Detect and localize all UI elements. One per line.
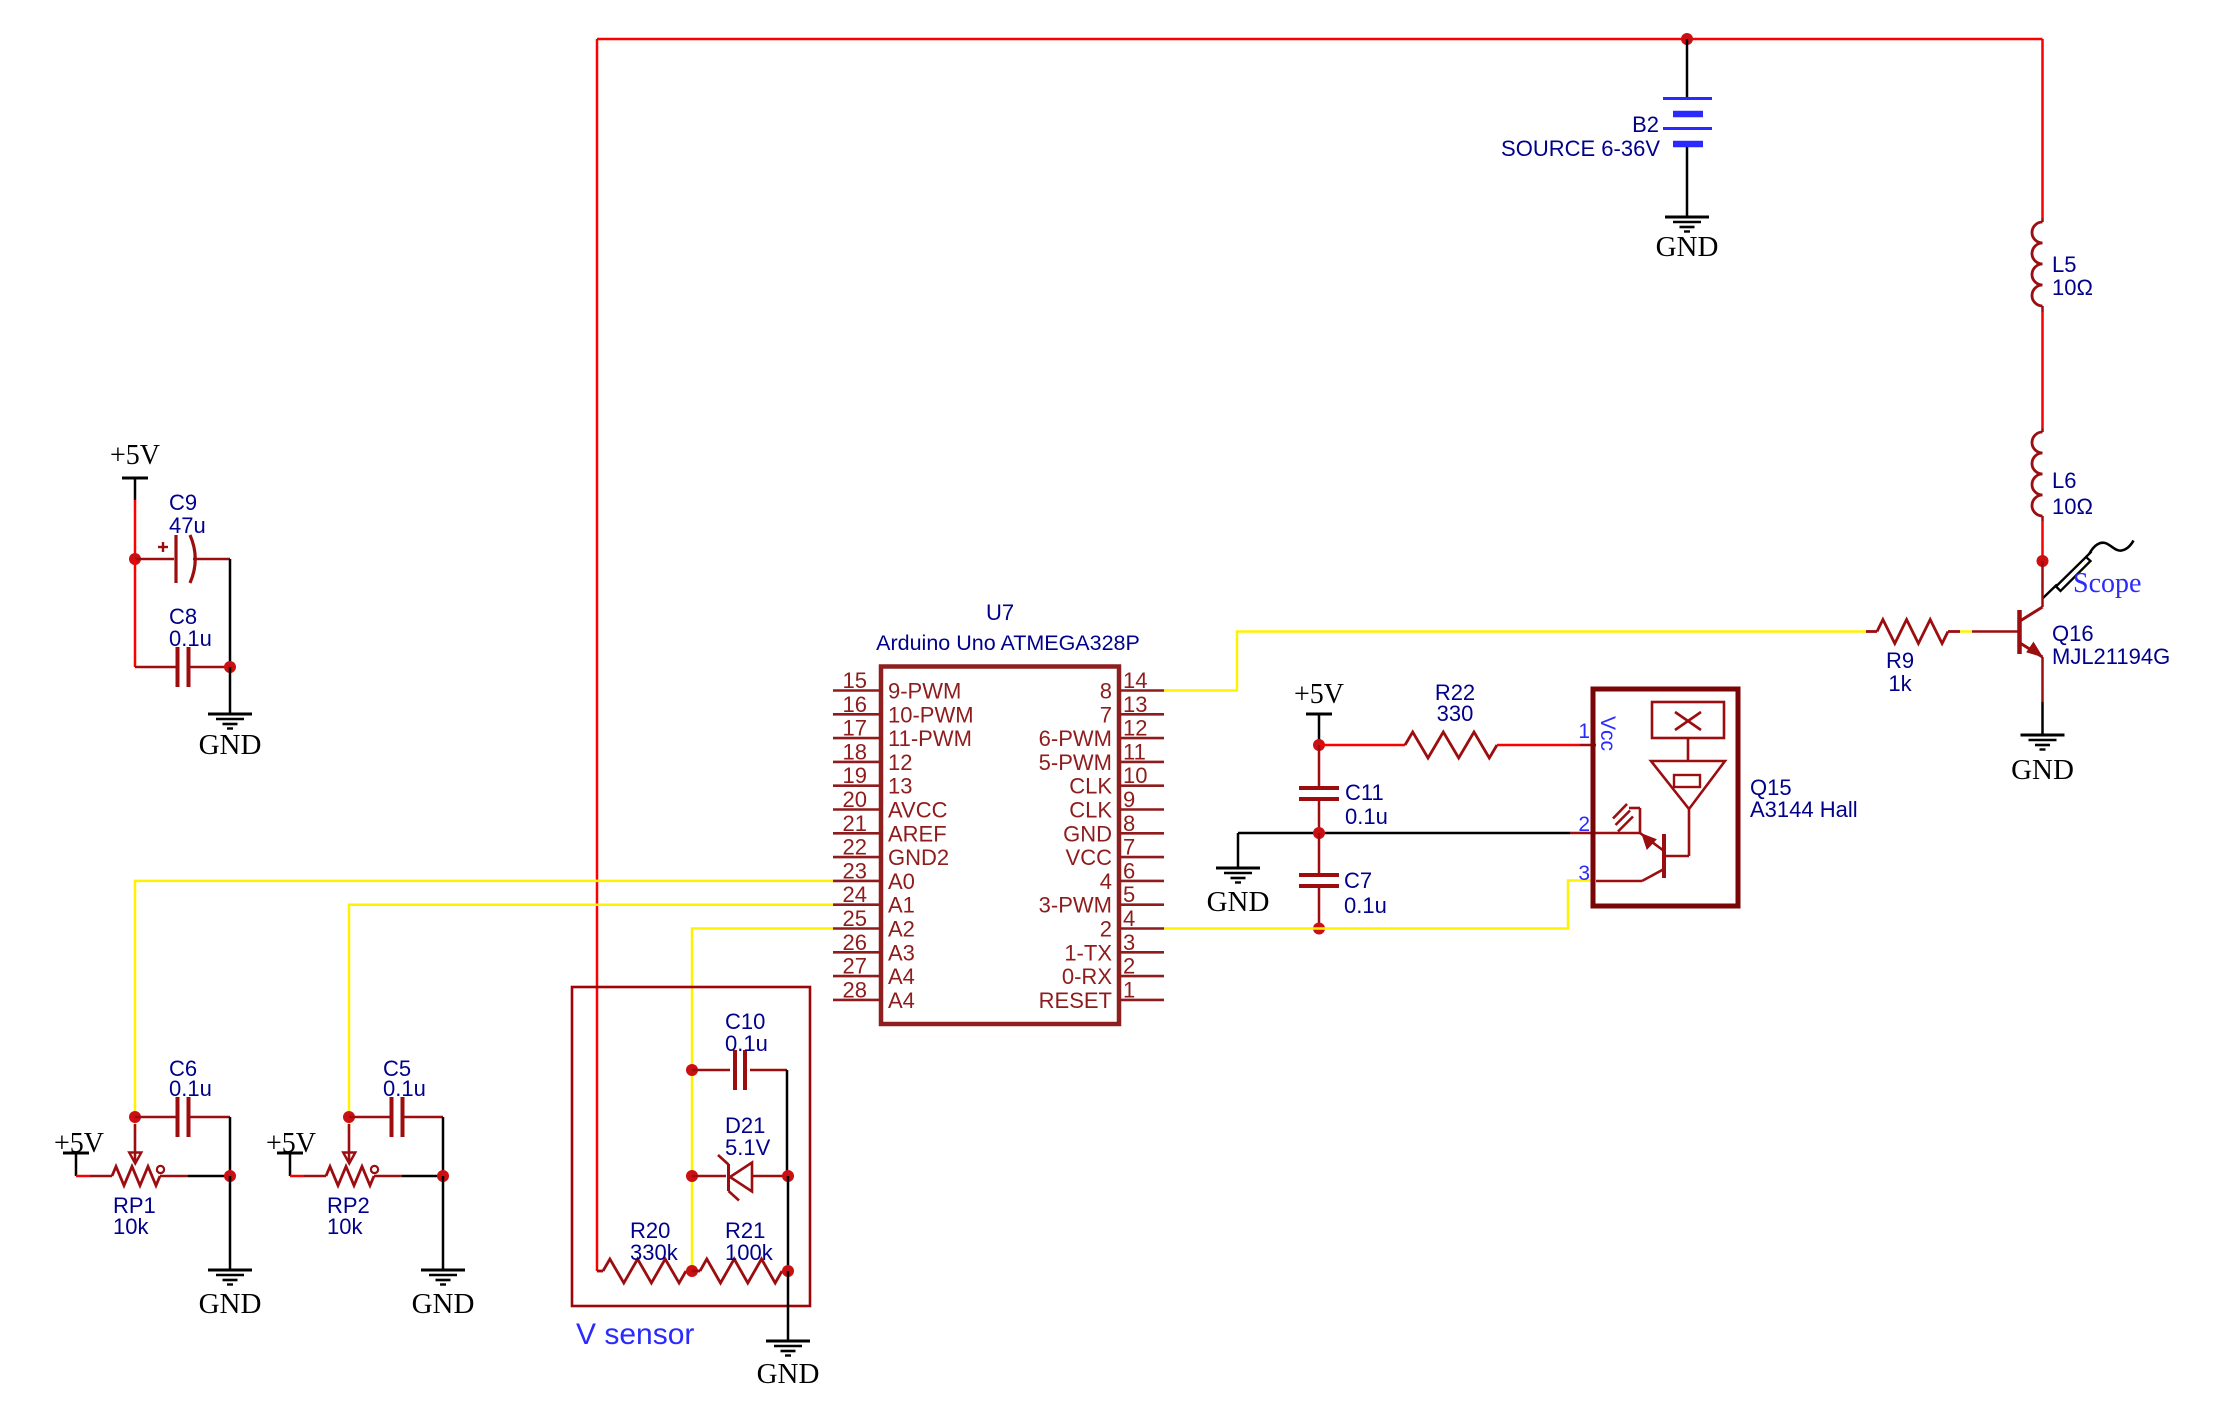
battery B2 bottom lead xyxy=(1686,147,1689,217)
wire D21 left xyxy=(692,1175,726,1178)
svg-text:9-PWM: 9-PWM xyxy=(888,679,961,704)
pin number 16 xyxy=(843,692,867,717)
wire C10 left xyxy=(692,1069,730,1072)
pin number 24 xyxy=(843,882,867,907)
pin number 13 xyxy=(1123,692,1147,717)
pin label VCC xyxy=(1066,845,1113,870)
node collector junction xyxy=(2037,555,2049,567)
wire C8 left xyxy=(135,666,177,669)
ground (RP2) xyxy=(421,1270,465,1285)
hall element plate (X box) xyxy=(1652,702,1724,738)
svg-text:47u: 47u xyxy=(169,513,206,538)
pin label 0-RX xyxy=(1062,964,1112,989)
pin number 6 xyxy=(1123,858,1135,883)
node C9 junction xyxy=(129,553,141,565)
svg-text:AVCC: AVCC xyxy=(888,798,948,823)
node R21 right junction xyxy=(782,1265,794,1277)
pin number 25 xyxy=(843,906,867,931)
pin label 5-PWM xyxy=(1039,750,1112,775)
battery B2 xyxy=(1663,99,1712,145)
power +5V (C9) xyxy=(110,440,160,479)
svg-text:0.1u: 0.1u xyxy=(169,1076,212,1101)
label GND (C8) xyxy=(199,729,262,761)
pin label A3 xyxy=(888,940,915,965)
pin number 2 xyxy=(1123,954,1135,979)
svg-text:0-RX: 0-RX xyxy=(1062,964,1112,989)
label C11 xyxy=(1345,780,1388,829)
ground (RP1) xyxy=(208,1270,252,1285)
node RP2 wiper junction xyxy=(343,1111,355,1123)
pin number 10 xyxy=(1123,763,1147,788)
wire Q16 emitter to ground xyxy=(2041,702,2044,735)
wire RP2 to ground xyxy=(442,1176,445,1270)
pin number 27 xyxy=(843,954,867,979)
svg-text:8: 8 xyxy=(1100,679,1112,704)
hall amp triangle xyxy=(1651,738,1725,809)
wire between L5 and L6 xyxy=(2041,312,2044,428)
svg-text:13: 13 xyxy=(1123,692,1147,717)
svg-text:C7: C7 xyxy=(1344,868,1372,893)
label Arduino Uno ATMEGA328P xyxy=(876,631,1140,655)
svg-text:GND: GND xyxy=(2011,754,2074,786)
capacitor C5 xyxy=(392,1097,403,1137)
pin label 10-PWM xyxy=(888,702,974,727)
wire C7 upper xyxy=(1318,833,1321,874)
pin 7 stub xyxy=(1119,856,1164,859)
svg-text:GND: GND xyxy=(199,729,262,761)
hall output transistor xyxy=(1596,804,1689,881)
svg-text:V sensor: V sensor xyxy=(576,1318,694,1351)
svg-text:A2: A2 xyxy=(888,917,915,942)
svg-text:L5: L5 xyxy=(2052,252,2076,277)
svg-text:8: 8 xyxy=(1123,811,1135,836)
svg-text:SOURCE 6-36V: SOURCE 6-36V xyxy=(1501,136,1660,161)
pin 28 stub xyxy=(833,999,881,1002)
pin 19 stub xyxy=(833,784,881,787)
svg-text:0.1u: 0.1u xyxy=(169,626,212,651)
node R20/R21 junction xyxy=(686,1265,698,1277)
pin 3 stub xyxy=(1119,951,1164,954)
svg-text:GND: GND xyxy=(1207,886,1270,918)
pin label AREF xyxy=(888,821,947,846)
pin 9 stub xyxy=(1119,808,1164,811)
pin label CLK xyxy=(1069,774,1112,799)
wire gnd to hall pin2 (black) xyxy=(1238,832,1570,835)
node C8 junction xyxy=(224,661,236,673)
label C9 xyxy=(169,490,206,538)
svg-text:3: 3 xyxy=(1123,930,1135,955)
wire D21 right xyxy=(752,1175,788,1178)
svg-text:0.1u: 0.1u xyxy=(1345,804,1388,829)
wire RP1 to junction (black) xyxy=(188,1175,230,1178)
pin label 9-PWM xyxy=(888,679,961,704)
svg-text:Q16: Q16 xyxy=(2052,621,2094,646)
label R22 xyxy=(1435,680,1475,726)
label RP2 xyxy=(327,1193,370,1239)
node D21 right junction xyxy=(782,1170,794,1182)
wire C8 right xyxy=(189,666,230,669)
pin 20 stub xyxy=(833,808,881,811)
capacitor C6 xyxy=(178,1097,189,1137)
label GND (RP2) xyxy=(412,1288,475,1320)
svg-text:U7: U7 xyxy=(986,600,1014,625)
wire RP2 right lead xyxy=(374,1175,402,1178)
svg-text:23: 23 xyxy=(843,858,867,883)
wire L6 to collector node xyxy=(2041,521,2044,561)
pin 10 stub xyxy=(1119,784,1164,787)
pin 5 stub xyxy=(1119,903,1164,906)
svg-text:0.1u: 0.1u xyxy=(383,1076,426,1101)
svg-text:A3144 Hall: A3144 Hall xyxy=(1750,797,1858,822)
svg-text:GND: GND xyxy=(1063,821,1112,846)
pin 6 stub xyxy=(1119,880,1164,883)
svg-text:18: 18 xyxy=(843,739,867,764)
pin 15 stub xyxy=(833,689,881,692)
wire +5V to R22 xyxy=(1319,744,1405,747)
ground (Q16) xyxy=(2021,735,2065,750)
potentiometer RP2 wiper arrow xyxy=(343,1124,355,1164)
svg-text:A4: A4 xyxy=(888,964,915,989)
resistor R22 xyxy=(1405,732,1497,758)
svg-text:28: 28 xyxy=(843,977,867,1002)
V sensor box xyxy=(572,987,810,1306)
pin label CLK xyxy=(1069,798,1112,823)
wire C5 corner (black) xyxy=(442,1117,445,1176)
svg-text:10Ω: 10Ω xyxy=(2052,494,2093,519)
svg-text:26: 26 xyxy=(843,930,867,955)
node +5V junction (hall) xyxy=(1313,739,1325,751)
svg-text:9: 9 xyxy=(1123,787,1135,812)
svg-text:A1: A1 xyxy=(888,893,915,918)
power +5V (RP1) xyxy=(54,1128,104,1159)
label U7 xyxy=(986,600,1014,625)
pin 12 stub xyxy=(1119,737,1164,740)
wire +5V stem (C9) xyxy=(134,478,137,559)
svg-text:VCC: VCC xyxy=(1066,845,1113,870)
svg-text:10Ω: 10Ω xyxy=(2052,275,2093,300)
label L5 xyxy=(2052,252,2093,300)
ground (hall) xyxy=(1216,868,1260,883)
svg-text:2: 2 xyxy=(1100,917,1112,942)
resistor R9 xyxy=(1866,620,1960,644)
wire C9 left xyxy=(135,558,174,561)
svg-text:MJL21194G: MJL21194G xyxy=(2052,644,2170,669)
svg-text:L6: L6 xyxy=(2052,468,2076,493)
svg-text:GND2: GND2 xyxy=(888,845,949,870)
resistor R21 xyxy=(692,1259,788,1283)
label D21 xyxy=(725,1113,771,1160)
pin label A1 xyxy=(888,893,915,918)
node RP1 junction xyxy=(224,1170,236,1182)
pin number 15 xyxy=(843,668,867,693)
wire A0 (yellow) xyxy=(135,881,833,1129)
pin label 6-PWM xyxy=(1039,726,1112,751)
svg-text:B2: B2 xyxy=(1632,112,1659,137)
pin label 11-PWM xyxy=(888,726,972,751)
label B2 xyxy=(1632,112,1659,137)
pin number 5 xyxy=(1123,882,1135,907)
pin 17 stub xyxy=(833,737,881,740)
wire C10 corner (black) xyxy=(786,1070,789,1176)
svg-text:2: 2 xyxy=(1578,813,1590,836)
label GND (V sensor) xyxy=(757,1358,820,1390)
svg-text:CLK: CLK xyxy=(1069,798,1112,823)
svg-text:Vcc: Vcc xyxy=(1596,716,1619,751)
svg-text:11: 11 xyxy=(1123,739,1146,764)
wire A2 (yellow) xyxy=(692,929,833,1272)
label C7 xyxy=(1344,868,1387,918)
svg-text:1: 1 xyxy=(1578,720,1590,743)
label Q15 xyxy=(1750,775,1858,822)
pin label 7 xyxy=(1100,702,1112,727)
pin label 2 xyxy=(1100,917,1112,942)
wire +V top horizontal xyxy=(597,38,2043,41)
label Q16 xyxy=(2052,621,2170,669)
label GND (battery) xyxy=(1656,231,1719,263)
pin 1 stub xyxy=(1119,999,1164,1002)
pin number 14 xyxy=(1123,668,1147,693)
pin label GND2 xyxy=(888,845,949,870)
svg-text:21: 21 xyxy=(843,811,867,836)
wire RP1 left lead xyxy=(90,1175,112,1178)
hall sensor box Q15 xyxy=(1593,689,1738,906)
svg-text:16: 16 xyxy=(843,692,867,717)
label C5 xyxy=(383,1056,426,1101)
ground (C8) xyxy=(208,714,252,729)
wire hall pin2 stub xyxy=(1570,832,1596,835)
ground (V sensor) xyxy=(766,1341,810,1356)
svg-text:CLK: CLK xyxy=(1069,774,1112,799)
label L6 xyxy=(2052,468,2093,519)
pin 8 stub xyxy=(1119,832,1164,835)
svg-text:20: 20 xyxy=(843,787,867,812)
label R9 xyxy=(1886,648,1914,696)
pin label 3 xyxy=(1578,862,1590,885)
ground (battery) xyxy=(1665,217,1709,232)
wire +5V stem (RP2) xyxy=(289,1153,292,1176)
svg-text:12: 12 xyxy=(888,750,912,775)
node C7 junction xyxy=(1313,923,1325,935)
battery B2 top lead xyxy=(1686,39,1689,97)
svg-text:GND: GND xyxy=(199,1288,262,1320)
wire C8 to ground xyxy=(229,667,232,714)
wire C6 corner (black) xyxy=(229,1117,232,1176)
node RP1 wiper junction xyxy=(129,1111,141,1123)
pin number 11 xyxy=(1123,739,1146,764)
svg-text:100k: 100k xyxy=(725,1240,774,1265)
pin number 19 xyxy=(843,763,867,788)
pin 22 stub xyxy=(833,856,881,859)
capacitor C10 xyxy=(735,1050,745,1090)
power +5V (RP2) xyxy=(266,1128,316,1159)
svg-text:24: 24 xyxy=(843,882,867,907)
label R20 xyxy=(630,1218,679,1265)
wire R9 to Q16 base (yellow) xyxy=(1960,630,1972,633)
label Scope xyxy=(2073,568,2141,599)
pin number 3 xyxy=(1123,930,1135,955)
label V sensor xyxy=(576,1318,694,1351)
wire pin4 to hall pin3 (yellow) xyxy=(1164,881,1592,929)
svg-text:GND: GND xyxy=(757,1358,820,1390)
label SOURCE 6-36V xyxy=(1501,136,1660,161)
svg-text:6-PWM: 6-PWM xyxy=(1039,726,1112,751)
svg-text:5.1V: 5.1V xyxy=(725,1135,771,1160)
pin label A4 xyxy=(888,988,915,1013)
svg-text:A4: A4 xyxy=(888,988,915,1013)
wire RP1 wiper junction to C6 xyxy=(135,1116,177,1119)
svg-text:15: 15 xyxy=(843,668,867,693)
svg-text:+5V: +5V xyxy=(110,440,160,471)
pin 25 stub xyxy=(833,927,881,930)
label C8 xyxy=(169,604,212,651)
wire pin14 to R9 (yellow) xyxy=(1164,632,1866,691)
pin label 8 xyxy=(1100,679,1112,704)
scope probe xyxy=(2043,541,2134,599)
label C10 xyxy=(725,1009,768,1056)
svg-text:4: 4 xyxy=(1123,906,1135,931)
pin 14 stub xyxy=(1119,689,1164,692)
wire collector node to Q16 xyxy=(2041,561,2044,607)
pin label 3-PWM xyxy=(1039,893,1112,918)
svg-text:A0: A0 xyxy=(888,869,915,894)
wire A1 (yellow) xyxy=(349,905,833,1129)
svg-text:10k: 10k xyxy=(327,1214,363,1239)
capacitor C8 xyxy=(178,647,189,687)
svg-text:10: 10 xyxy=(1123,763,1147,788)
chip U7 outline xyxy=(881,667,1119,1025)
svg-text:7: 7 xyxy=(1100,702,1112,727)
pin label A2 xyxy=(888,917,915,942)
label C6 xyxy=(169,1056,212,1101)
svg-text:5: 5 xyxy=(1123,882,1135,907)
wire C11 upper xyxy=(1318,745,1321,787)
wire +5V to RP1 (red) xyxy=(76,1175,90,1178)
wire +V right vertical (to L5) xyxy=(2041,39,2044,218)
svg-text:AREF: AREF xyxy=(888,821,947,846)
svg-text:2: 2 xyxy=(1123,954,1135,979)
svg-text:1-TX: 1-TX xyxy=(1064,940,1112,965)
pin number 26 xyxy=(843,930,867,955)
pin 18 stub xyxy=(833,761,881,764)
transistor Q16 xyxy=(2020,607,2043,657)
zener diode D21 xyxy=(718,1155,752,1201)
svg-text:27: 27 xyxy=(843,954,867,979)
pin label A4 xyxy=(888,964,915,989)
svg-text:A3: A3 xyxy=(888,940,915,965)
wire RP1 to ground xyxy=(229,1176,232,1270)
svg-text:RESET: RESET xyxy=(1039,988,1112,1013)
wire C11 lower xyxy=(1318,800,1321,833)
pin label RESET xyxy=(1039,988,1112,1013)
svg-text:3-PWM: 3-PWM xyxy=(1039,893,1112,918)
svg-text:C9: C9 xyxy=(169,490,197,515)
pin number 4 xyxy=(1123,906,1135,931)
label GND (Q16) xyxy=(2011,754,2074,786)
svg-text:C11: C11 xyxy=(1345,780,1384,805)
capacitor C11 xyxy=(1299,788,1339,799)
svg-text:330: 330 xyxy=(1437,701,1474,726)
node D21 left junction xyxy=(686,1170,698,1182)
potentiometer RP2 xyxy=(326,1166,378,1186)
wire C6 right xyxy=(189,1116,230,1119)
wire RP2 to junction (black) xyxy=(402,1175,443,1178)
wire +V left vertical (to V sensor) xyxy=(596,39,599,1271)
pin number 12 xyxy=(1123,716,1147,741)
wire C7 lower xyxy=(1318,887,1321,929)
pin 4 stub xyxy=(1119,927,1164,930)
svg-text:Arduino Uno ATMEGA328P: Arduino Uno ATMEGA328P xyxy=(876,631,1140,655)
pin 27 stub xyxy=(833,975,881,978)
wire R21 to ground xyxy=(787,1271,790,1341)
wire RP2 wiper junction to C5 xyxy=(349,1116,391,1119)
pin label GND xyxy=(1063,821,1112,846)
svg-text:7: 7 xyxy=(1123,835,1135,860)
wire R9 to Q16 base xyxy=(1972,630,2018,633)
pin 2 stub xyxy=(1119,975,1164,978)
wire C9 right xyxy=(193,558,230,561)
pin 21 stub xyxy=(833,832,881,835)
pin label 4 xyxy=(1100,869,1112,894)
pin 16 stub xyxy=(833,713,881,716)
pin number 9 xyxy=(1123,787,1135,812)
pin label Vcc xyxy=(1596,716,1619,751)
svg-text:1: 1 xyxy=(1123,977,1135,1002)
svg-text:R9: R9 xyxy=(1886,648,1914,673)
svg-text:17: 17 xyxy=(843,716,867,741)
wire +5V to RP2 (red) xyxy=(290,1175,304,1178)
wire C9 to C8 (right,black) xyxy=(229,559,232,667)
svg-text:3: 3 xyxy=(1578,862,1590,885)
pin 13 stub xyxy=(1119,713,1164,716)
wire C10 right xyxy=(750,1069,787,1072)
pin number 1 xyxy=(1123,977,1135,1002)
svg-text:11-PWM: 11-PWM xyxy=(888,726,972,751)
wire C9 to C8 (left,red) xyxy=(134,559,137,667)
inductor L5 xyxy=(2032,218,2042,312)
svg-text:19: 19 xyxy=(843,763,867,788)
pin number 23 xyxy=(843,858,867,883)
node C10 junction xyxy=(686,1064,698,1076)
pin 26 stub xyxy=(833,951,881,954)
svg-text:14: 14 xyxy=(1123,668,1147,693)
inductor L6 xyxy=(2032,428,2042,521)
svg-text:Scope: Scope xyxy=(2073,568,2141,599)
svg-text:0.1u: 0.1u xyxy=(725,1031,768,1056)
pin label 1-TX xyxy=(1064,940,1112,965)
wire +5V stem (hall) xyxy=(1318,714,1321,745)
svg-text:1k: 1k xyxy=(1888,671,1912,696)
potentiometer RP1 xyxy=(112,1166,164,1186)
pin 24 stub xyxy=(833,903,881,906)
pin number 17 xyxy=(843,716,867,741)
wire R22 to hall pin1 xyxy=(1497,744,1596,747)
pin number 22 xyxy=(843,835,867,860)
wire RP2 left lead xyxy=(304,1175,326,1178)
resistor R20 xyxy=(597,1259,692,1283)
pin label 12 xyxy=(888,750,912,775)
wire Q16 emitter xyxy=(2041,657,2044,702)
pin 11 stub xyxy=(1119,761,1164,764)
svg-text:330k: 330k xyxy=(630,1240,679,1265)
svg-text:GND: GND xyxy=(412,1288,475,1320)
svg-text:4: 4 xyxy=(1100,869,1112,894)
node C11 junction xyxy=(1313,827,1325,839)
pin 23 stub xyxy=(833,880,881,883)
pin number 18 xyxy=(843,739,867,764)
svg-text:+5V: +5V xyxy=(1294,679,1344,710)
power +5V (hall) xyxy=(1294,679,1344,715)
svg-text:12: 12 xyxy=(1123,716,1147,741)
